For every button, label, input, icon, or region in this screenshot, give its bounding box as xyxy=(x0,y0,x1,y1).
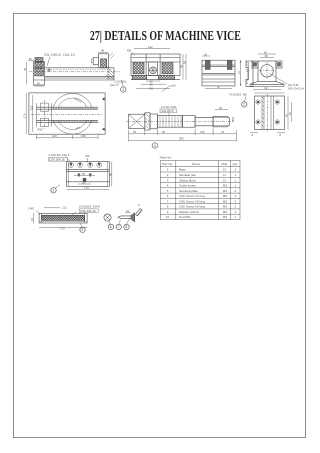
svg-text:Qty.: Qty. xyxy=(233,162,238,166)
svg-text:M6: M6 xyxy=(86,154,90,158)
svg-text:39: 39 xyxy=(179,65,183,68)
svg-text:1: 1 xyxy=(122,88,124,92)
svg-text:Guide screw: Guide screw xyxy=(179,184,197,188)
svg-text:70: 70 xyxy=(221,130,225,134)
svg-text:Washer φ20×6: Washer φ20×6 xyxy=(179,210,199,214)
svg-text:MS: MS xyxy=(223,189,228,193)
svg-text:170: 170 xyxy=(84,186,89,190)
svg-text:215: 215 xyxy=(200,130,205,134)
svg-text:112: 112 xyxy=(62,206,67,210)
svg-text:15: 15 xyxy=(29,57,33,61)
svg-text:MS: MS xyxy=(223,199,228,203)
svg-text:6: 6 xyxy=(110,225,112,229)
svg-text:1: 1 xyxy=(167,168,169,172)
svg-text:R20: R20 xyxy=(38,128,44,132)
svg-text:Sliding block: Sliding block xyxy=(179,178,196,182)
svg-text:90: 90 xyxy=(162,130,166,134)
svg-text:1: 1 xyxy=(235,178,237,182)
svg-text:26: 26 xyxy=(133,130,137,134)
svg-text:CSK Screw 34 long: CSK Screw 34 long xyxy=(179,194,205,198)
svg-text:Base: Base xyxy=(179,168,186,172)
svg-text:MS: MS xyxy=(223,210,228,214)
svg-text:56: 56 xyxy=(183,61,187,64)
svg-text:383: 383 xyxy=(179,137,184,141)
svg-text:M20: M20 xyxy=(231,116,235,122)
svg-text:4: 4 xyxy=(167,184,169,188)
svg-text:5: 5 xyxy=(81,228,83,232)
svg-text:MS: MS xyxy=(223,205,228,209)
svg-text:CSK Screw 30 long: CSK Screw 30 long xyxy=(179,199,205,203)
svg-text:CSK Screw 50 long: CSK Screw 50 long xyxy=(179,205,205,209)
svg-text:18: 18 xyxy=(204,52,207,56)
svg-text:4: 4 xyxy=(154,144,156,148)
svg-text:4 HOLES, M6: 4 HOLES, M6 xyxy=(229,93,247,97)
svg-text:7: 7 xyxy=(167,199,169,203)
svg-text:CI: CI xyxy=(223,168,226,172)
svg-text:4 HOLES, DIA 6: 4 HOLES, DIA 6 xyxy=(49,153,70,157)
svg-text:OIL HOLE, DIA 10: OIL HOLE, DIA 10 xyxy=(44,53,75,57)
svg-text:1: 1 xyxy=(235,184,237,188)
svg-text:116: 116 xyxy=(29,105,33,110)
svg-text:2: 2 xyxy=(235,199,237,203)
svg-text:8: 8 xyxy=(167,205,169,209)
svg-text:DIA 30: DIA 30 xyxy=(74,96,83,103)
svg-text:10: 10 xyxy=(166,215,170,219)
svg-text:180: 180 xyxy=(81,134,86,138)
svg-text:2: 2 xyxy=(235,189,237,193)
svg-text:2: 2 xyxy=(52,189,54,193)
svg-text:1: 1 xyxy=(235,210,237,214)
svg-text:56: 56 xyxy=(82,172,85,176)
svg-text:Name: Name xyxy=(192,162,200,166)
svg-text:62: 62 xyxy=(265,86,269,90)
svg-text:70: 70 xyxy=(217,85,221,89)
svg-text:Matl: Matl xyxy=(222,162,228,166)
svg-text:DIA 20×5: DIA 20×5 xyxy=(162,109,174,113)
svg-text:7: 7 xyxy=(118,225,120,229)
svg-text:9: 9 xyxy=(167,210,169,214)
svg-text:2: 2 xyxy=(167,173,169,177)
svg-text:4: 4 xyxy=(235,194,237,198)
svg-text:MS: MS xyxy=(223,184,228,188)
svg-text:45: 45 xyxy=(101,49,105,53)
svg-text:8: 8 xyxy=(280,133,282,137)
svg-text:100: 100 xyxy=(52,134,57,138)
svg-text:DIA 20×5 LH: DIA 20×5 LH xyxy=(288,87,304,91)
svg-text:2°45': 2°45' xyxy=(28,207,35,211)
svg-text:10: 10 xyxy=(36,57,40,61)
svg-text:112: 112 xyxy=(148,45,153,49)
svg-text:R25: R25 xyxy=(75,125,82,131)
svg-text:2: 2 xyxy=(243,103,245,107)
svg-text:M6: M6 xyxy=(127,49,131,53)
svg-text:Nut M20: Nut M20 xyxy=(179,215,191,219)
svg-text:25: 25 xyxy=(219,106,223,110)
svg-text:DIA 10: DIA 10 xyxy=(110,82,120,87)
svg-text:170: 170 xyxy=(60,227,65,231)
svg-text:Part No.: Part No. xyxy=(162,162,173,166)
svg-text:MS: MS xyxy=(223,194,228,198)
svg-text:φ20: φ20 xyxy=(171,83,176,87)
svg-text:CI: CI xyxy=(223,173,226,177)
svg-text:3: 3 xyxy=(167,178,169,182)
svg-text:6: 6 xyxy=(167,194,169,198)
svg-text:2: 2 xyxy=(235,205,237,209)
svg-text:8: 8 xyxy=(125,225,127,229)
svg-text:Parts list: Parts list xyxy=(160,155,172,159)
svg-text:5: 5 xyxy=(167,189,169,193)
svg-text:CSK DIA 16: CSK DIA 16 xyxy=(80,209,96,213)
svg-text:38: 38 xyxy=(265,54,269,58)
svg-text:36: 36 xyxy=(82,180,85,184)
svg-text:1: 1 xyxy=(235,173,237,177)
svg-text:34: 34 xyxy=(37,82,41,86)
svg-text:1: 1 xyxy=(235,215,237,219)
svg-text:MS: MS xyxy=(223,215,228,219)
svg-text:Movable jaw: Movable jaw xyxy=(179,173,197,177)
svg-text:34: 34 xyxy=(126,209,129,213)
svg-text:8: 8 xyxy=(252,133,254,137)
svg-text:CSK DIA 16: CSK DIA 16 xyxy=(49,158,65,162)
svg-text:57: 57 xyxy=(237,71,241,74)
svg-text:6: 6 xyxy=(138,203,140,207)
svg-text:1: 1 xyxy=(235,168,237,172)
svg-text:136: 136 xyxy=(149,87,154,91)
svg-text:45: 45 xyxy=(23,67,27,71)
svg-text:CI: CI xyxy=(223,178,226,182)
svg-text:Serrated plate: Serrated plate xyxy=(179,189,198,193)
